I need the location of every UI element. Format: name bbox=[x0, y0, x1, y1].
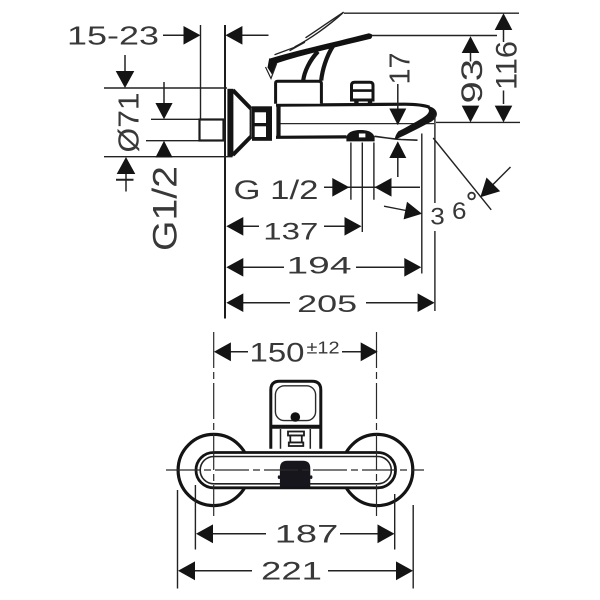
dim 194 bbox=[243, 266, 404, 268]
lever blade bbox=[270, 33, 372, 64]
svg-text:187: 187 bbox=[275, 520, 339, 548]
G1/2 outlet extension lines bbox=[351, 143, 374, 200]
G1/2 outlet dim line bbox=[324, 186, 420, 188]
body centerline bbox=[280, 123, 434, 125]
dim 187 bbox=[213, 533, 378, 535]
right escutcheon circle bbox=[342, 434, 413, 505]
lever rear tail bbox=[268, 58, 278, 74]
arrow Ø71 bottom bbox=[117, 157, 136, 174]
dim 137 bbox=[243, 225, 345, 227]
escutcheon cone bottom edge bbox=[233, 137, 251, 155]
spout underside thin bbox=[375, 136, 418, 140]
vertical centerline right / 150 ext bbox=[376, 332, 378, 516]
svg-text:116: 116 bbox=[490, 41, 523, 90]
36 degree slant line bbox=[433, 138, 491, 210]
spout beak bbox=[395, 106, 437, 140]
arrow G1/2 outlet left bbox=[332, 178, 349, 197]
dim 93 arrows bbox=[462, 36, 480, 53]
outlet centerline extension bbox=[361, 143, 363, 233]
svg-text:93: 93 bbox=[455, 59, 488, 104]
arrow Ø71 top bbox=[124, 55, 126, 71]
dim 17 bottom arrow bbox=[389, 141, 406, 158]
body left edge bbox=[276, 105, 280, 138]
escutcheon left face bar bbox=[227, 89, 233, 157]
dim 17 top arrow bbox=[397, 84, 399, 109]
escutcheon cone right edge bbox=[250, 108, 252, 138]
outlet steps front bbox=[288, 432, 304, 436]
ext lines 187 bbox=[195, 485, 394, 550]
grip inner thin outline bbox=[275, 386, 315, 421]
36 degree diagonal leader bbox=[492, 167, 511, 186]
thin line sliver to blade end bbox=[275, 47, 295, 55]
dim 205 bbox=[243, 302, 418, 304]
36 degree horizontal leader bbox=[384, 206, 406, 210]
svg-text:3: 3 bbox=[430, 204, 445, 231]
body top edge into spout bbox=[276, 104, 430, 107]
arrow 15-23 right bbox=[225, 26, 242, 45]
left escutcheon circle bbox=[178, 434, 249, 505]
svg-text:G 1/2: G 1/2 bbox=[234, 175, 319, 205]
svg-text:221: 221 bbox=[261, 558, 322, 586]
arrow 15-23 left bbox=[184, 26, 201, 45]
body capsule inner bbox=[200, 457, 391, 484]
vertical centerline left / 150 ext bbox=[213, 332, 215, 516]
diverter knob lip bbox=[352, 82, 374, 100]
tick below Ø71 stem bbox=[116, 179, 134, 181]
hose outlet bump bbox=[346, 130, 374, 141]
cartridge base bbox=[276, 81, 322, 104]
svg-text:150: 150 bbox=[250, 338, 305, 368]
body bottom edge bbox=[276, 135, 347, 139]
dimension 15-23 lines bbox=[163, 34, 269, 36]
crease line bbox=[290, 42, 306, 51]
svg-text:G1/2: G1/2 bbox=[146, 166, 184, 251]
lever neck left edge bbox=[303, 52, 318, 81]
svg-text:15-23: 15-23 bbox=[67, 21, 159, 51]
arrow G1/2 nipple top bbox=[163, 82, 165, 103]
svg-text:194: 194 bbox=[287, 253, 352, 280]
body capsule outer bbox=[196, 453, 396, 488]
dim line Ø71 bottom bbox=[104, 156, 233, 158]
svg-text:17: 17 bbox=[383, 53, 416, 85]
svg-text:Ø71: Ø71 bbox=[112, 93, 145, 153]
svg-text:±12: ±12 bbox=[307, 338, 340, 358]
ext lines 221 bbox=[178, 490, 414, 589]
tail thin outline bbox=[266, 63, 277, 78]
horizontal centerline bbox=[166, 469, 424, 471]
svg-text:205: 205 bbox=[297, 291, 357, 318]
extension line 194 bbox=[421, 134, 423, 274]
extension line 205 (gap at 36 text) bbox=[434, 115, 436, 311]
dim 116 arrows bbox=[495, 13, 513, 30]
ref line spout outlet level bbox=[436, 121, 520, 123]
diverter blob front bbox=[280, 461, 310, 487]
dim line Ø71 top bbox=[104, 87, 227, 89]
svg-text:6: 6 bbox=[452, 198, 467, 225]
arrow G1/2 outlet right bbox=[375, 178, 392, 197]
escutcheon cone top edge bbox=[233, 90, 251, 108]
arrow G1/2 nipple bottom bbox=[155, 141, 172, 158]
lever neck right edge bbox=[321, 46, 333, 81]
diverter knob neck bbox=[352, 89, 373, 92]
ref line top of cartridge (93) bbox=[372, 35, 497, 37]
dim 150 +-12 bbox=[230, 351, 362, 353]
logo dot bbox=[291, 412, 301, 422]
extension line 15-23 left bbox=[200, 25, 202, 119]
ref lines G1/2 wall nipple bbox=[146, 119, 200, 140]
ref line top of lever (116) bbox=[344, 12, 519, 14]
union nut bbox=[252, 106, 272, 141]
collar inner lines bbox=[281, 429, 311, 449]
svg-text:137: 137 bbox=[263, 218, 318, 245]
handle front outline bbox=[271, 381, 321, 449]
grip bottom line bbox=[271, 425, 321, 429]
dim 221 bbox=[195, 570, 396, 572]
inlet nipple rectangle in wall bbox=[200, 120, 224, 141]
lever top sliver bbox=[306, 12, 344, 38]
wall line bbox=[224, 25, 226, 319]
